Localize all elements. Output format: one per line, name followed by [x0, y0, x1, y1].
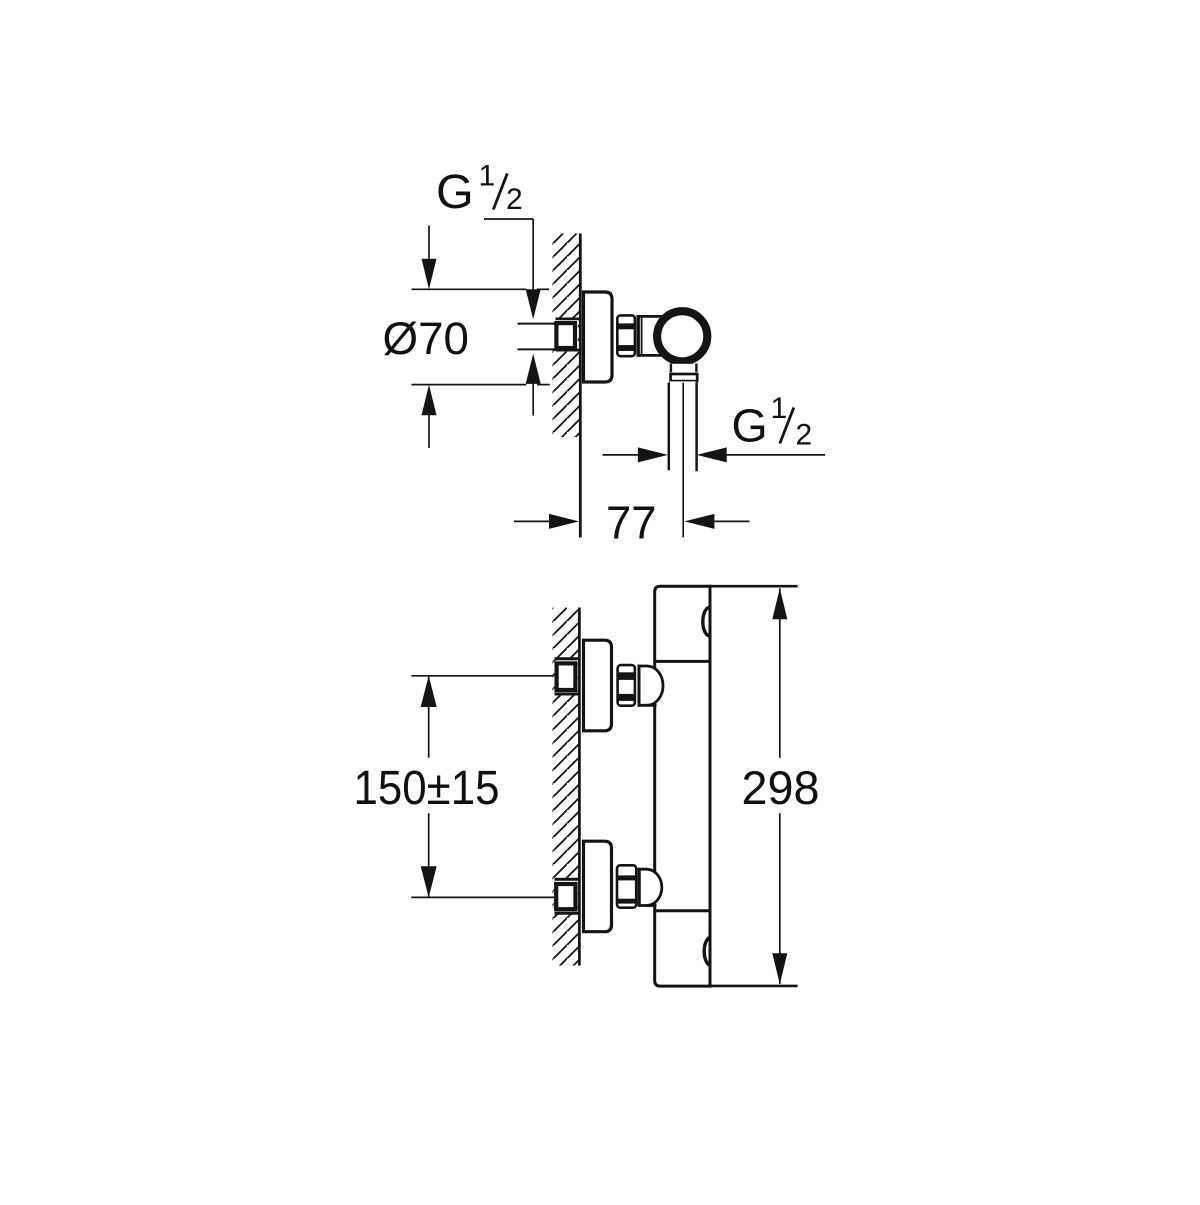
bottom escutcheon	[584, 841, 612, 932]
dim extent line (flange bottom)	[412, 384, 550, 386]
pipe centerline extension	[682, 383, 684, 538]
G 1/2 leader + arrows (wall union thread)	[484, 219, 541, 416]
bottom set screw	[704, 937, 709, 965]
dia70 dimension arrows	[422, 226, 437, 449]
wall hatch (lower view)	[553, 608, 579, 966]
svg-text:Ø70: Ø70	[383, 313, 470, 364]
77 dimension	[514, 514, 750, 529]
svg-text:77: 77	[606, 497, 657, 549]
top union seat plate	[555, 659, 581, 694]
svg-text:1: 1	[479, 160, 496, 193]
150+-15 dimension	[411, 676, 554, 898]
wall line (lower view)	[578, 608, 581, 966]
svg-text:G: G	[732, 399, 768, 451]
union seat plate (top view)	[556, 318, 581, 352]
hex coupling nut (top view)	[617, 315, 635, 356]
top escutcheon	[584, 640, 612, 731]
dim extent line (flange top)	[412, 288, 550, 290]
G 1/2 label (top)	[436, 160, 523, 220]
neck below knob	[671, 364, 697, 373]
svg-text:2: 2	[506, 183, 523, 216]
thermostat knob (side view ring)	[657, 311, 707, 361]
wall line (top view)	[579, 234, 582, 538]
svg-text:G: G	[436, 165, 474, 219]
top set screw	[703, 607, 710, 635]
top square union nut	[557, 663, 576, 690]
outlet collar	[671, 374, 698, 381]
square union nut (top view)	[556, 323, 575, 348]
svg-text:2: 2	[796, 418, 813, 451]
bottom inlet dome	[639, 868, 662, 907]
svg-text:298: 298	[742, 762, 820, 815]
bottom square union nut	[556, 884, 575, 909]
svg-text:1: 1	[771, 392, 788, 425]
escutcheon flange, side view	[584, 292, 613, 382]
body bar (mixer column, side view)	[655, 586, 710, 986]
outlet pipe (down)	[669, 381, 697, 471]
top hex nut	[618, 665, 635, 706]
supply pipe stub behind wall	[518, 324, 556, 350]
top inlet dome	[639, 665, 663, 707]
G 1/2 pipe dimension (bottom of top view)	[603, 447, 826, 462]
bottom cap joint	[655, 909, 710, 912]
wall hatch (top view)	[553, 234, 580, 438]
top cap joint	[655, 660, 710, 663]
bottom union seat plate	[555, 879, 581, 913]
valve body connector (top view)	[638, 315, 663, 357]
svg-text:150±15: 150±15	[354, 762, 500, 815]
G 1/2 label (pipe)	[732, 392, 813, 451]
298 dimension	[708, 586, 798, 986]
bottom hex nut	[617, 865, 636, 907]
